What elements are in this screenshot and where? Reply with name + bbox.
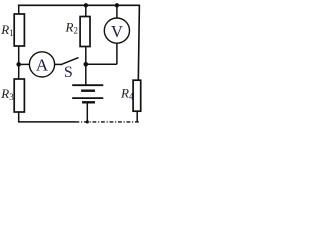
battery plate short top — [81, 89, 95, 91]
battery plate long bottom — [72, 97, 103, 99]
switch S blade — [60, 58, 78, 65]
resistor R2 — [80, 17, 90, 47]
wire R1 bottom lead — [18, 46, 20, 64]
label R2 — [65, 20, 78, 36]
battery plate short bottom — [82, 101, 95, 103]
svg-text:R1: R1 — [0, 22, 13, 38]
wire battery top lead — [85, 64, 87, 85]
node junction middle — [84, 62, 89, 67]
resistor R1 — [14, 14, 24, 46]
node junction top voltmeter — [115, 3, 119, 7]
wire voltmeter bottom lead — [116, 43, 118, 64]
wire ammeter left lead — [19, 63, 30, 65]
label R3 — [0, 86, 14, 102]
svg-text:S: S — [64, 64, 73, 81]
svg-text:A: A — [36, 56, 49, 75]
battery plate long top — [72, 84, 103, 86]
svg-text:R3: R3 — [0, 86, 14, 102]
ammeter A — [29, 52, 54, 77]
resistor R3 — [14, 79, 24, 112]
svg-text:R2: R2 — [65, 20, 78, 36]
wire voltmeter top lead — [116, 5, 118, 18]
resistor R4 — [133, 80, 141, 111]
wire bottom solid — [18, 121, 76, 123]
label R4 — [120, 86, 134, 102]
node junction left — [16, 62, 21, 67]
svg-text:V: V — [111, 22, 123, 41]
wire right vertical — [138, 5, 139, 81]
node battery bottom junction — [86, 120, 89, 123]
wire bottom dash-dot — [76, 121, 140, 123]
svg-text:R4: R4 — [120, 86, 134, 102]
wire R1 top lead — [18, 5, 20, 15]
wire R2 top lead — [85, 5, 87, 16]
wire middle to voltmeter branch — [86, 63, 117, 65]
wire top horizontal — [18, 4, 140, 6]
node junction top R2 — [84, 3, 88, 7]
wire R3 bottom lead — [18, 112, 20, 122]
wire battery bottom lead — [86, 102, 88, 122]
voltmeter V — [104, 18, 129, 43]
label S — [64, 64, 73, 81]
label R1 — [0, 22, 13, 38]
wire R4 bottom lead — [136, 111, 138, 122]
wire R2 bottom lead — [85, 47, 87, 65]
wire left column to R3 — [18, 64, 20, 79]
wire ammeter to switch — [55, 63, 61, 65]
